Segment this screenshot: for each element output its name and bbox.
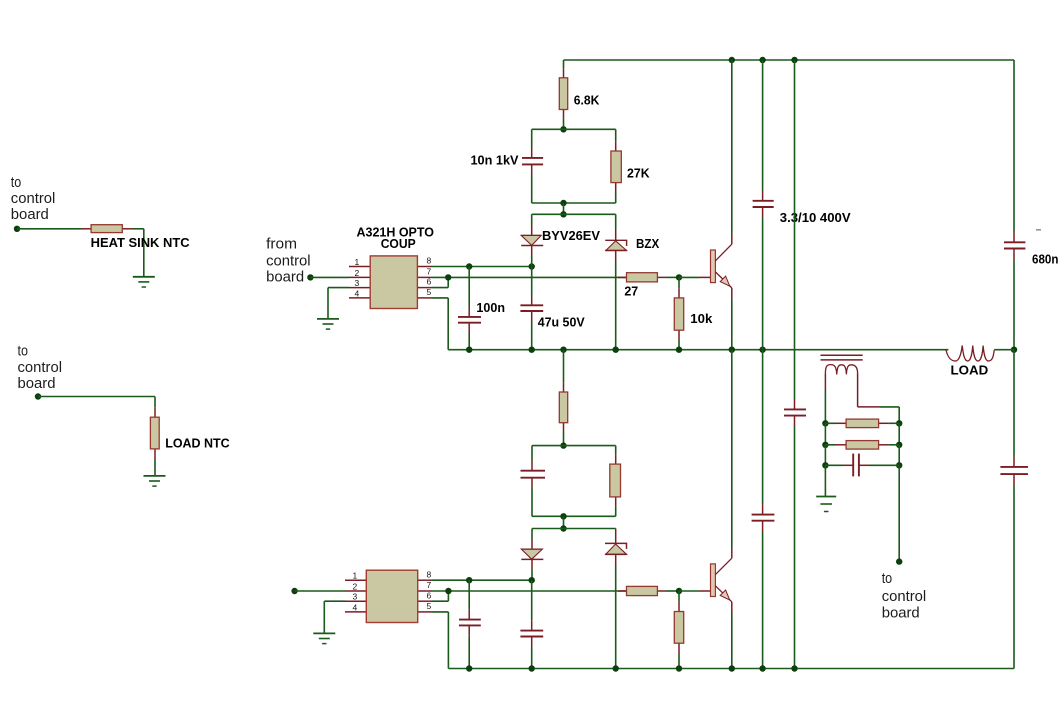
- capacitor 10n 1kV: [522, 148, 543, 175]
- capacitor ch2 b: [520, 620, 543, 647]
- wire 100n to rail: [468, 333, 470, 350]
- node input ch2: [291, 588, 297, 594]
- wire loop1 right lower: [615, 193, 617, 204]
- node rail-BZX: [613, 347, 619, 353]
- svg-text:680n: 680n: [1032, 251, 1058, 266]
- wire snub right v2: [898, 445, 900, 466]
- wire opto pin6 up to pin7: [432, 277, 448, 287]
- wire loop1 bottom: [532, 202, 616, 204]
- wire opto2 pin7 net: [432, 590, 627, 592]
- text to control board (bottom right): [882, 570, 927, 622]
- resistor loop2: [610, 454, 621, 506]
- wire rail2 to diode2: [531, 529, 533, 540]
- node LOAD right: [1011, 347, 1017, 353]
- wire cap2a to bottom rail: [468, 636, 470, 669]
- wire snub right down: [898, 465, 900, 561]
- svg-text:BYV26EV: BYV26EV: [542, 228, 600, 243]
- wire opto2 pin8 net: [432, 579, 532, 581]
- svg-text:board: board: [882, 605, 920, 622]
- node loop2 top: [560, 442, 566, 448]
- transistor Q1: [711, 244, 732, 288]
- ground opto U1: [317, 319, 339, 329]
- node loop1 top: [560, 126, 566, 132]
- capacitor 3.3/10 400V: [753, 191, 774, 218]
- node pin8-diode2: [529, 577, 535, 583]
- resistor base ch2: [618, 586, 666, 595]
- svg-text:6.8K: 6.8K: [574, 93, 600, 108]
- svg-text:10k: 10k: [690, 311, 713, 326]
- svg-text:4: 4: [353, 602, 358, 612]
- resistor HEAT SINK NTC: [81, 225, 133, 233]
- svg-text:2: 2: [355, 268, 360, 278]
- svg-text:HEAT SINK NTC: HEAT SINK NTC: [91, 235, 191, 250]
- wire 47u upper lead: [531, 267, 533, 296]
- diode BYV26EV: [521, 226, 543, 256]
- node rail-47u: [529, 347, 535, 353]
- opto-coupler U2: [345, 570, 432, 622]
- wire opto pin3 to ground: [328, 288, 349, 319]
- wire mid rail: [448, 349, 948, 351]
- wire top bus: [564, 59, 1015, 61]
- pin numbers U1 right: [427, 256, 432, 297]
- resistor 10k: [674, 288, 683, 340]
- wire 100n upper lead: [468, 267, 470, 307]
- wire cap column lower: [762, 350, 764, 505]
- wire winding right elbow: [858, 374, 900, 424]
- svg-text:board: board: [11, 206, 49, 223]
- svg-text:6: 6: [427, 277, 432, 287]
- wire Q1 emitter down: [731, 288, 733, 350]
- wire loop1 left upper: [531, 129, 533, 147]
- svg-text:27: 27: [624, 284, 638, 299]
- wire loop1 left lower: [531, 175, 533, 204]
- svg-text:COUP: COUP: [381, 236, 416, 251]
- wire base node 2 to Q2: [679, 590, 711, 592]
- node brail-right column: [791, 665, 797, 671]
- wire ch2 to loop2: [563, 433, 565, 446]
- wire cap2b upper lead: [531, 580, 533, 620]
- node to-control-board (bottom right): [896, 558, 902, 564]
- zener BZX: [605, 229, 627, 263]
- svg-text:to: to: [882, 570, 893, 587]
- node base-10k junction 2: [676, 588, 682, 594]
- label 3.3/10 400V: [780, 210, 851, 225]
- node loop1 bottom: [560, 200, 566, 206]
- node to-control-board (heat sink): [14, 226, 20, 232]
- wire loop2 link: [563, 516, 565, 528]
- wire from-control to opto pin2: [310, 276, 349, 278]
- wire load-ntc input: [38, 397, 155, 408]
- stray dash: [1036, 229, 1041, 231]
- wire opto pin5 down to rail: [432, 298, 448, 350]
- wire loop2 left upper: [531, 446, 533, 461]
- label BZX: [636, 236, 659, 251]
- resistor 6.8K: [559, 68, 567, 118]
- wire ch2 feed: [563, 350, 565, 383]
- svg-text:47u 50V: 47u 50V: [538, 314, 585, 329]
- wire winding left down: [824, 374, 826, 424]
- ground snubber: [816, 497, 836, 512]
- svg-text:10n 1kV: 10n 1kV: [471, 152, 519, 167]
- resistor 27K: [611, 141, 621, 192]
- text to control board (mid left): [18, 343, 63, 393]
- capacitor 680n: [1004, 232, 1025, 259]
- wire loop1 top: [532, 128, 616, 130]
- wire heat-sink input: [17, 228, 81, 230]
- node brail-Q2-emitter: [729, 665, 735, 671]
- pin numbers U1 left: [355, 257, 360, 298]
- node snub right 2: [896, 442, 902, 448]
- svg-text:5: 5: [427, 287, 432, 297]
- wire cap column upper: [762, 60, 764, 191]
- wire load-ntc to ground: [154, 459, 156, 476]
- resistor LOAD NTC: [150, 407, 159, 459]
- label LOAD NTC: [165, 435, 230, 450]
- ground load-ntc: [144, 476, 166, 486]
- label A321H OPTO: [357, 225, 435, 240]
- svg-text:3: 3: [353, 592, 358, 602]
- wire 27-2 to base node: [666, 590, 679, 592]
- label 6.8K: [574, 93, 600, 108]
- svg-text:LOAD: LOAD: [951, 362, 989, 377]
- opto-coupler U1 A321H: [349, 256, 432, 309]
- node top bus right column: [791, 57, 797, 63]
- resistor ch2 top: [559, 382, 567, 432]
- wire loop2 top: [532, 445, 616, 447]
- node snub left 3: [822, 462, 828, 468]
- text to control board (top left): [11, 174, 56, 223]
- wire snub left v2: [824, 445, 826, 466]
- wire BYV26EV to pin8 net: [531, 256, 533, 267]
- wire 10k-2 to bottom rail: [678, 653, 680, 669]
- node snub left 2: [822, 442, 828, 448]
- svg-text:1: 1: [353, 571, 358, 581]
- svg-text:8: 8: [427, 569, 432, 579]
- capacitor right column: [784, 399, 806, 426]
- node brail-10k2: [676, 665, 682, 671]
- wire BZX to rail bottom: [615, 262, 617, 350]
- text from control board: [266, 236, 311, 286]
- node top bus Q1 collector: [729, 57, 735, 63]
- wire 47u to rail: [531, 321, 533, 350]
- wire input ch2 to opto pin2: [295, 590, 345, 592]
- pin numbers U2 left: [353, 571, 358, 613]
- wire diode rail: [532, 213, 616, 215]
- node brail-cap2b: [529, 665, 535, 671]
- capacitor ch2 a: [459, 609, 481, 636]
- svg-text:control: control: [11, 190, 56, 207]
- node pin8-cap2a: [466, 577, 472, 583]
- capacitor 100n: [458, 307, 481, 334]
- wire base node to Q1: [679, 276, 711, 278]
- wire cap2b to bottom rail: [531, 647, 533, 669]
- wire Q2 emitter down: [731, 602, 733, 669]
- node loop2 bottom: [560, 513, 566, 519]
- label 10k: [690, 311, 713, 326]
- svg-text:4: 4: [355, 288, 360, 298]
- node brail-cap column: [759, 665, 765, 671]
- node rail-ch2: [560, 347, 566, 353]
- resistor 10k ch2: [674, 602, 683, 653]
- svg-text:7: 7: [427, 267, 432, 277]
- label 10n 1kV: [471, 152, 519, 167]
- svg-text:to: to: [18, 343, 29, 360]
- svg-text:3.3/10 400V: 3.3/10 400V: [780, 210, 851, 225]
- wire cap column to mid rail: [762, 218, 764, 350]
- node diode rail 2: [560, 525, 566, 531]
- wire snub left v1: [824, 423, 826, 445]
- svg-text:5: 5: [427, 601, 432, 611]
- node diode rail: [560, 211, 566, 217]
- wire loop1 link: [563, 203, 565, 214]
- diode ch2: [521, 540, 543, 570]
- node pin6-pin7 junction: [445, 274, 451, 280]
- wire right column lower: [794, 426, 796, 669]
- wire diode rail 2: [532, 528, 616, 530]
- svg-text:2: 2: [353, 581, 358, 591]
- capacitor snubber: [825, 454, 899, 477]
- wire opto pin7 net (base line): [432, 276, 627, 278]
- wire opto2 pin5 down: [432, 612, 448, 669]
- wire snub left to ground: [824, 465, 826, 496]
- svg-text:27K: 27K: [627, 165, 650, 180]
- node pin8-100n: [466, 263, 472, 269]
- svg-text:board: board: [266, 268, 304, 285]
- pin numbers U2 right: [427, 569, 432, 611]
- label BYV26EV: [542, 228, 600, 243]
- capacitor loop2: [521, 460, 546, 488]
- wire opto2 pin3 to ground: [324, 601, 345, 633]
- node snub right 3: [896, 462, 902, 468]
- svg-text:to: to: [11, 174, 21, 191]
- node pin8-47u: [529, 263, 535, 269]
- transistor Q2: [711, 558, 732, 602]
- capacitor 47u 50V: [520, 295, 543, 321]
- svg-text:LOAD NTC: LOAD NTC: [165, 435, 230, 450]
- node rail-cap column: [759, 347, 765, 353]
- svg-text:from: from: [266, 236, 297, 253]
- label LOAD: [951, 362, 989, 377]
- wire loop2 bottom: [532, 515, 616, 517]
- wire bottom rail: [448, 668, 1014, 670]
- label HEAT SINK NTC: [91, 235, 191, 250]
- label 100n: [476, 300, 505, 315]
- svg-text:1: 1: [355, 257, 360, 267]
- resistor snubber 1: [825, 419, 899, 428]
- wire far right upper: [1013, 60, 1015, 232]
- node top bus cap column: [759, 57, 765, 63]
- svg-text:BZX: BZX: [636, 236, 659, 251]
- wire rail to BYV26EV: [531, 214, 533, 226]
- wire far right lower: [1013, 350, 1015, 457]
- svg-text:control: control: [882, 588, 927, 605]
- label 680n: [1032, 251, 1058, 266]
- wire zener2 to bottom rail: [615, 566, 617, 669]
- wire loop2 right upper: [615, 446, 617, 455]
- svg-text:7: 7: [427, 580, 432, 590]
- capacitor far right lower: [1000, 457, 1028, 485]
- capacitor lower (cap column): [752, 504, 775, 531]
- node snub left 1: [822, 420, 828, 426]
- wire far right to LOAD node: [1013, 259, 1015, 350]
- svg-text:3: 3: [355, 278, 360, 288]
- svg-text:control: control: [18, 359, 63, 376]
- label 27: [624, 284, 638, 299]
- resistor snubber 2: [825, 441, 899, 450]
- svg-text:6: 6: [427, 590, 432, 600]
- wire diode2 to pin8 net: [531, 570, 533, 581]
- ground heat-sink: [133, 277, 155, 287]
- label 47u 50V: [538, 314, 585, 329]
- resistor 27 (base): [618, 273, 666, 282]
- wire heat-sink to ground: [133, 229, 144, 277]
- wire snub right v1: [898, 423, 900, 445]
- wire 10k-2 upper lead: [678, 591, 680, 602]
- label 27K: [627, 165, 650, 180]
- wire cap2a upper lead: [468, 580, 470, 609]
- wire 10k upper lead: [678, 277, 680, 288]
- node base-10k junction: [676, 274, 682, 280]
- node brail-cap2a: [466, 665, 472, 671]
- wire 10k to rail: [678, 340, 680, 350]
- wire rail to BZX: [615, 214, 617, 228]
- node from-control-board: [307, 274, 313, 280]
- wire cap column to bottom rail: [762, 531, 764, 669]
- svg-text:100n: 100n: [476, 300, 505, 315]
- svg-text:board: board: [18, 375, 56, 392]
- wire far right to bottom rail: [1013, 485, 1015, 669]
- wire top bus to 6.8K: [563, 60, 565, 68]
- node snub right 1: [896, 420, 902, 426]
- node rail-10k: [676, 347, 682, 353]
- transformer core: [821, 355, 863, 360]
- wire Q2 collector up: [731, 350, 733, 559]
- svg-text:8: 8: [427, 256, 432, 266]
- wire loop2 right lower: [615, 507, 617, 517]
- transformer winding: [825, 365, 857, 375]
- wire 27 to base node: [666, 276, 679, 278]
- node to-control-board (load ntc): [35, 393, 41, 399]
- label COUP: [381, 236, 416, 251]
- zener ch2: [605, 529, 627, 566]
- wire Q1 collector up: [731, 60, 733, 244]
- wire loop1 right upper: [615, 129, 617, 141]
- ground opto U2: [313, 633, 335, 643]
- node pin6-pin7 junction 2: [445, 588, 451, 594]
- svg-text:control: control: [266, 252, 311, 269]
- node brail-zener2: [613, 665, 619, 671]
- wire opto pin8 net: [432, 266, 532, 268]
- wire loop2 left lower: [531, 488, 533, 516]
- inductor LOAD: [946, 346, 1014, 362]
- node rail-100n: [466, 347, 472, 353]
- node rail-Q1-emitter: [729, 347, 735, 353]
- wire opto2 pin6 up: [432, 591, 448, 601]
- wire right column upper: [794, 60, 796, 399]
- wire 6.8K to loop: [563, 118, 565, 129]
